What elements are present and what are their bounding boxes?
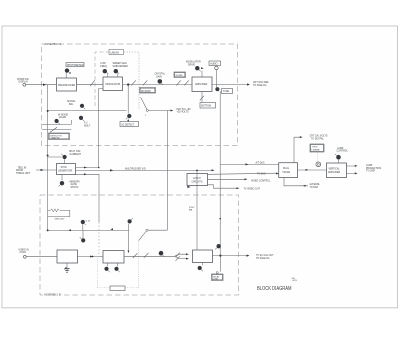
wire: trig linear dotted lead: [316, 152, 318, 162]
svg-text:GENERATOR: GENERATOR: [58, 170, 73, 173]
svg-text:SUBCARRIER: SUBCARRIER: [113, 65, 129, 68]
svg-text:TRACE: TRACE: [282, 171, 290, 174]
svg-text:AMPLIFIER: AMPLIFIER: [195, 83, 208, 86]
wire: modulator top leads: [108, 73, 118, 77]
svg-text:AUDIO: AUDIO: [210, 62, 217, 65]
inner dashed sub-enclosure: [95, 52, 139, 110]
video amp box B1 (empty): [57, 250, 78, 263]
svg-text:CRYSTAL: CRYSTAL: [155, 73, 166, 76]
wire: diagonal from pickoff to node: [141, 97, 147, 109]
label box TRIG LINEAR: [310, 144, 324, 152]
svg-text:PICKOFF: PICKOFF: [141, 91, 152, 93]
transistor Q17 below B2 right: [114, 267, 119, 273]
switches on lower main line: [133, 253, 138, 258]
svg-text:TUNE: TUNE: [223, 91, 230, 93]
transistor Q1 above preamp: [65, 68, 71, 73]
wire: B3 output: [213, 255, 249, 257]
wire: preamp top lead: [65, 73, 67, 78]
wire: main signal line top: [26, 84, 249, 86]
svg-text:TV DAC: TV DAC: [257, 172, 266, 175]
svg-text:CURRENT: CURRENT: [70, 154, 82, 156]
svg-text:LAB NO: LAB NO: [110, 51, 119, 54]
svg-text:STATIC: STATIC: [71, 186, 79, 189]
resistor R zigzag: [51, 209, 60, 212]
label box TUNE: [222, 89, 233, 94]
svg-text:LAMP: LAMP: [366, 164, 373, 167]
svg-text:BLOCK DIAGRAM: BLOCK DIAGRAM: [257, 286, 292, 292]
vertical amplifier box: [327, 163, 347, 178]
wire: vert amp outputs: [347, 166, 356, 174]
wire: dotted feedback vertical: [138, 241, 140, 288]
wire: resistor loop lower left: [48, 210, 70, 216]
wire: modulator feedback left: [99, 89, 103, 168]
svg-text:TIMING UNIT: TIMING UNIT: [16, 173, 31, 175]
svg-text:TO DIGITAL: TO DIGITAL: [311, 137, 324, 140]
svg-text:TEEL IN: TEEL IN: [18, 167, 27, 169]
small empty box lower middle: [110, 286, 125, 291]
svg-text:MODULATOR: MODULATOR: [186, 61, 201, 64]
free text labels: [16, 61, 381, 283]
wire: sync out bottom into assembly B: [76, 174, 100, 222]
transistor Q19 below gate line: [80, 237, 86, 242]
svg-text:LINEAR: LINEAR: [312, 149, 320, 152]
svg-text:AMPLIFIER: AMPLIFIER: [328, 171, 340, 174]
wire: lower main line: [26, 255, 174, 257]
wire: B1 ground lead: [66, 263, 68, 268]
svg-text:VALVE: VALVE: [59, 116, 67, 119]
latch circuits box: [187, 174, 208, 186]
svg-text:NORM: NORM: [176, 75, 183, 77]
svg-text:TRIG: TRIG: [312, 147, 318, 149]
switch S3: [143, 80, 147, 85]
transistor Q15 below B3: [198, 266, 203, 271]
label box DETECTOR LAMP: [49, 133, 70, 140]
wire: vertical from modulator out node to AC DETECT: [127, 85, 129, 122]
switch on amplifier bottom lead: [200, 96, 204, 101]
dual trace box: [279, 163, 298, 178]
svg-text:ASSEMBLY A: ASSEMBLY A: [45, 42, 62, 46]
svg-text:MODULATOR: MODULATOR: [106, 83, 121, 86]
svg-text:PHOTOMETER: PHOTOMETER: [67, 65, 84, 67]
wire: A/T DAC branch to dual trace: [220, 163, 279, 165]
switch S1 after preamp: [90, 80, 95, 86]
node circle gate switch: [146, 229, 148, 231]
transistor Q4 crystal on main line: [158, 79, 164, 85]
wire: amplifier bottom lead: [201, 92, 203, 103]
wire: short lines above detector lamp box: [42, 120, 71, 130]
svg-text:VIDEO IN: VIDEO IN: [19, 250, 30, 252]
ground below B1: [64, 267, 70, 273]
label box DELAY LINE: [212, 274, 224, 281]
svg-text:MULTIPLEXED VID: MULTIPLEXED VID: [125, 169, 146, 171]
sync generator box: [57, 164, 76, 175]
svg-text:LINE: LINE: [214, 279, 219, 281]
preamplifier box: [57, 78, 77, 91]
wire: x=128.4 drop to lower line: [127, 224, 129, 253]
modulator box: [103, 77, 123, 91]
svg-text:VERTICAL: VERTICAL: [329, 167, 341, 170]
label box AUDIO: [209, 61, 221, 66]
svg-text:+20 VOLTS: +20 VOLTS: [177, 112, 190, 114]
svg-text:LOW: LOW: [100, 63, 106, 65]
svg-text:LAMP: LAMP: [337, 147, 344, 150]
wire: dual trace top to CRT cal: [294, 137, 301, 163]
switch blades at B3 fan: [176, 253, 180, 261]
wire: multiplex bus: [76, 169, 214, 171]
svg-text:BAL: BAL: [69, 103, 74, 106]
wire: modulator drive lead: [201, 71, 203, 77]
video amp box B2 (empty): [103, 251, 124, 264]
label box BOTTOM: [200, 103, 216, 109]
label box PICKOFF: [140, 88, 156, 94]
svg-text:CHIRP A/D: CHIRP A/D: [17, 78, 29, 81]
wire: latch out A: [208, 173, 278, 174]
transistor Q2 above modulator left: [103, 69, 109, 74]
arrowheads: [41, 67, 358, 259]
wire: sync out top: [76, 167, 99, 169]
wire: timing input: [36, 169, 57, 171]
svg-text:DRIVE: DRIVE: [188, 64, 196, 66]
svg-text:GAIN: GAIN: [156, 75, 162, 78]
label box NORM REF: [174, 72, 186, 78]
label box photometer (above preamp): [66, 63, 84, 67]
output box B3 (empty): [193, 250, 213, 263]
svg-text:TO ANALOG: TO ANALOG: [253, 84, 267, 87]
svg-text:TV VIDEO OUT: TV VIDEO OUT: [244, 189, 261, 191]
svg-text:FREQ: FREQ: [100, 66, 107, 68]
delay line top node: [216, 272, 218, 274]
svg-text:SYNC: SYNC: [61, 167, 68, 169]
wire: lamp lead into vert amp: [338, 160, 340, 163]
meter symbol double circle before vert amp: [316, 162, 321, 167]
switch on detector lamp line: [50, 127, 57, 132]
wire: noise line y=110.6: [48, 109, 172, 111]
svg-text:ZERO ADJ: ZERO ADJ: [55, 218, 65, 221]
amplifier box U3: [192, 77, 212, 92]
svg-text:SHUT OFF: SHUT OFF: [69, 151, 81, 153]
transistor Q14 above B3: [215, 244, 221, 249]
wire: B2 bottom leads: [108, 263, 118, 266]
svg-text:TO ANALOG: TO ANALOG: [256, 257, 270, 260]
svg-text:TO DAP: TO DAP: [310, 186, 319, 189]
svg-text:DISPLAY: DISPLAY: [19, 81, 29, 84]
transistor Q11 memory gate: [59, 181, 65, 187]
svg-text:MAY B C +50: MAY B C +50: [177, 108, 192, 111]
svg-text:A/T DAC: A/T DAC: [256, 162, 265, 165]
switch S4: [176, 80, 181, 85]
wire: dual trace bottom alternate: [284, 178, 308, 186]
svg-text:DUAL: DUAL: [283, 167, 290, 170]
transistor Q13 lower main line: [159, 251, 165, 257]
wire: delay line drop: [219, 256, 221, 272]
svg-text:PROJECTION: PROJECTION: [366, 168, 381, 170]
svg-text:LAMP AT: LAMP AT: [51, 137, 60, 140]
transistor Q20 lamp driver: [335, 154, 341, 160]
transistor Q6 signal B upper: [80, 104, 85, 110]
switch S2: [131, 80, 136, 85]
svg-text:VIDEO CONTROL: VIDEO CONTROL: [251, 180, 271, 182]
assembly B dashed enclosure: [40, 195, 239, 295]
svg-text:MEMORY: MEMORY: [70, 181, 81, 183]
wire: gate line y=230.4: [48, 229, 129, 231]
svg-text:AC DETECT: AC DETECT: [121, 123, 135, 126]
svg-text:GATE: GATE: [71, 183, 78, 186]
svg-text:SIGNAL: SIGNAL: [67, 100, 76, 103]
transistor Q9 AC detect: [126, 114, 132, 120]
switch contacts on main line: [50, 80, 204, 261]
wire: fan into B3: [175, 254, 188, 258]
svg-text:ALTERNL: ALTERNL: [310, 183, 321, 186]
label box AC DETECT: [120, 122, 139, 127]
wire: audio lead down: [215, 70, 217, 87]
wire: vertical x=167.3: [166, 111, 168, 231]
input terminal bottom (coax): [23, 255, 26, 258]
svg-text:COAX: COAX: [20, 251, 27, 254]
wire: memory gate lead: [61, 175, 63, 181]
transistor Q18 lower left: [81, 220, 86, 225]
svg-text:TV DISP: TV DISP: [366, 171, 376, 173]
wire: Q18 lead: [82, 224, 84, 238]
inner enclosure label box: [109, 50, 124, 55]
svg-text:PREAMPLIFIER: PREAMPLIFIER: [58, 84, 75, 87]
svg-text:CONTROL: CONTROL: [337, 151, 349, 153]
assembly A dashed enclosure: [42, 44, 238, 146]
wire: right trunk x=220.2: [219, 91, 221, 256]
svg-text:CRT OSC REF: CRT OSC REF: [253, 82, 269, 84]
svg-text:BOTTOM: BOTTOM: [201, 105, 211, 107]
input terminal top (coax): [23, 83, 26, 86]
svg-text:SWEEP GEN: SWEEP GEN: [113, 63, 127, 65]
svg-text:MULT: MULT: [84, 125, 91, 127]
node circle on noise line: [146, 109, 148, 111]
transistor Q12 gate line: [128, 218, 133, 223]
wire: latch feed from bus: [196, 170, 198, 250]
audio pickoff circle: [215, 66, 218, 69]
switch S5: [184, 80, 189, 85]
transistor Q3 above modulator right: [114, 69, 120, 74]
transistor Q5 modulator drive: [195, 66, 201, 71]
wire: latch out C: [208, 185, 239, 188]
transistor Q10 shutoff: [61, 154, 67, 159]
transistor Q7 x2 mult: [79, 116, 84, 122]
junction dots: [47, 83, 222, 257]
wire: dual trace to vertical amp: [298, 169, 327, 171]
svg-text:8073: 8073: [293, 280, 297, 282]
wire: latch out B: [208, 178, 247, 180]
svg-text:TV SC CAL OUT: TV SC CAL OUT: [256, 254, 274, 257]
transistor Q16 below B2 left: [104, 267, 109, 273]
svg-text:W NOISE: W NOISE: [58, 114, 69, 116]
wire: shutoff lead: [48, 157, 65, 164]
transistor Q8 w-noise: [55, 119, 60, 125]
wire: vertical trunk x=47.6: [47, 85, 49, 231]
wire: dotted feedback bottom: [98, 287, 139, 289]
wire: switch blade to dotted feedback: [139, 231, 147, 241]
wire: B3 top transistor lead / bottom lead: [202, 263, 204, 266]
svg-text:ASSEMBLY B: ASSEMBLY B: [44, 292, 61, 296]
svg-text:CRT CAL VOLTS: CRT CAL VOLTS: [310, 134, 328, 137]
